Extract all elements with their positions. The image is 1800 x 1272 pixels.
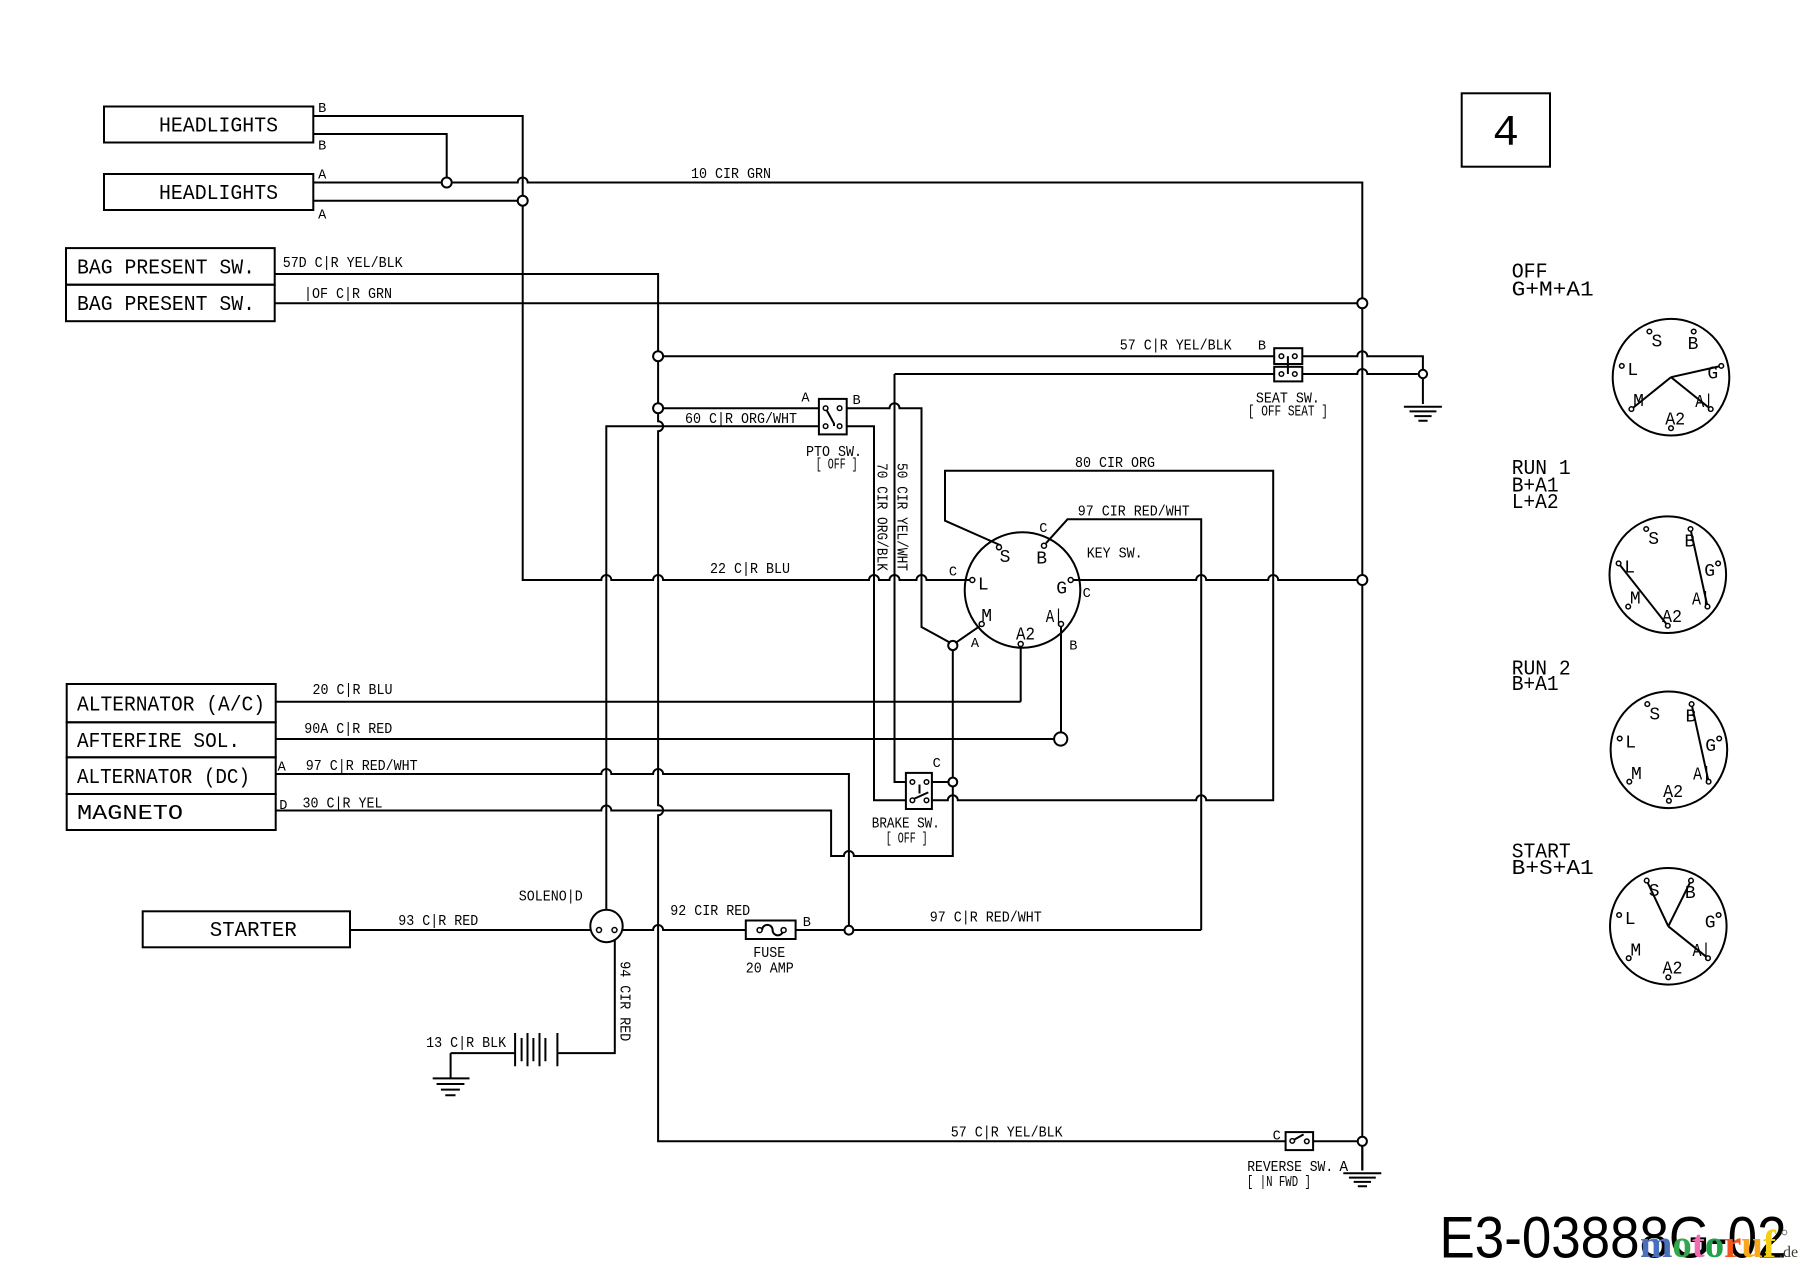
svg-text:REVERSE SW.: REVERSE SW. <box>1247 1160 1333 1176</box>
svg-text:A: A <box>801 392 810 407</box>
svg-text:SOLENO|D: SOLENO|D <box>519 890 583 906</box>
svg-text:B: B <box>1685 707 1696 727</box>
svg-text:A|: A| <box>1046 608 1063 628</box>
svg-text:G: G <box>1705 914 1716 934</box>
svg-text:A|: A| <box>1693 942 1711 962</box>
svg-text:B+S+A1: B+S+A1 <box>1512 858 1594 881</box>
svg-text:A|: A| <box>1692 590 1710 610</box>
svg-text:MAGNETO: MAGNETO <box>77 803 183 826</box>
svg-text:B: B <box>1258 340 1266 355</box>
svg-text:22 C|R BLU: 22 C|R BLU <box>710 562 790 578</box>
svg-text:G: G <box>1704 562 1715 582</box>
svg-text:L: L <box>978 576 989 596</box>
svg-text:L: L <box>1625 734 1636 754</box>
svg-text:L: L <box>1624 559 1635 579</box>
svg-text:97 C|R RED/WHT: 97 C|R RED/WHT <box>930 911 1042 927</box>
svg-text:L: L <box>1625 910 1636 930</box>
svg-text:M: M <box>1630 941 1641 961</box>
svg-text:A2: A2 <box>1663 960 1683 980</box>
svg-text:G: G <box>1707 365 1718 385</box>
svg-text:A2: A2 <box>1016 626 1035 646</box>
svg-text:A: A <box>318 209 327 224</box>
svg-text:BAG PRESENT SW.: BAG PRESENT SW. <box>77 294 255 317</box>
svg-text:B: B <box>803 916 811 931</box>
svg-text:M: M <box>1633 392 1644 412</box>
svg-text:20 AMP: 20 AMP <box>746 961 794 977</box>
svg-text:A: A <box>1339 1160 1348 1176</box>
svg-text:C: C <box>933 757 941 772</box>
svg-text:G: G <box>1705 737 1716 757</box>
svg-text:B: B <box>318 102 326 117</box>
svg-text:60 C|R ORG/WHT: 60 C|R ORG/WHT <box>685 412 797 428</box>
svg-text:AFTERFIRE SOL.: AFTERFIRE SOL. <box>77 731 240 754</box>
svg-text:93 C|R RED: 93 C|R RED <box>398 914 478 930</box>
svg-text:90A C|R RED: 90A C|R RED <box>304 722 392 738</box>
svg-text:M: M <box>981 607 992 627</box>
svg-text:30 C|R YEL: 30 C|R YEL <box>303 797 383 813</box>
svg-text:|OF C|R GRN: |OF C|R GRN <box>304 287 392 303</box>
svg-text:57 C|R YEL/BLK: 57 C|R YEL/BLK <box>1120 339 1232 355</box>
svg-text:97 C|R RED/WHT: 97 C|R RED/WHT <box>306 759 418 775</box>
svg-text:A: A <box>278 761 287 776</box>
svg-text:KEY SW.: KEY SW. <box>1087 547 1143 563</box>
svg-text:50 CIR YEL/WHT: 50 CIR YEL/WHT <box>893 463 909 571</box>
svg-text:A|: A| <box>1695 393 1713 413</box>
svg-text:BAG PRESENT SW.: BAG PRESENT SW. <box>77 258 255 281</box>
svg-text:S: S <box>1648 530 1659 550</box>
svg-text:57D C|R YEL/BLK: 57D C|R YEL/BLK <box>283 256 403 272</box>
svg-text:.de: .de <box>1779 1244 1798 1261</box>
svg-text:A: A <box>971 637 980 652</box>
svg-text:A2: A2 <box>1665 411 1685 431</box>
svg-text:C: C <box>1083 587 1091 602</box>
svg-text:20 C|R BLU: 20 C|R BLU <box>313 683 393 699</box>
svg-text:[ OFF ]: [ OFF ] <box>816 458 858 474</box>
svg-text:STARTER: STARTER <box>210 920 297 943</box>
svg-text:C: C <box>949 566 957 581</box>
svg-text:80 CIR ORG: 80 CIR ORG <box>1075 456 1155 472</box>
svg-text:A2: A2 <box>1662 608 1682 628</box>
svg-text:A|: A| <box>1693 766 1711 786</box>
svg-text:4: 4 <box>1493 109 1519 159</box>
svg-text:94 CIR RED: 94 CIR RED <box>616 961 632 1041</box>
svg-text:G: G <box>1056 580 1067 600</box>
svg-text:A2: A2 <box>1663 783 1683 803</box>
svg-text:10 CIR GRN: 10 CIR GRN <box>691 167 771 183</box>
svg-text:S: S <box>1651 333 1662 353</box>
svg-text:L+A2: L+A2 <box>1512 492 1559 515</box>
svg-text:[ OFF ]: [ OFF ] <box>886 832 928 848</box>
svg-text:D: D <box>279 799 287 814</box>
svg-text:13 C|R BLK: 13 C|R BLK <box>426 1036 506 1052</box>
svg-text:S: S <box>1649 705 1660 725</box>
svg-text:B: B <box>1069 640 1077 655</box>
svg-text:HEADLIGHTS: HEADLIGHTS <box>159 116 278 139</box>
svg-text:70 CIR ORG/BLK: 70 CIR ORG/BLK <box>873 463 889 571</box>
svg-text:B+A1: B+A1 <box>1512 674 1559 697</box>
svg-text:A: A <box>318 169 327 184</box>
svg-text:C: C <box>1273 1130 1281 1145</box>
svg-text:B: B <box>853 394 861 409</box>
svg-text:ALTERNATOR (A/C): ALTERNATOR (A/C) <box>77 694 265 717</box>
svg-text:L: L <box>1627 361 1638 381</box>
svg-text:FUSE: FUSE <box>753 946 785 962</box>
svg-text:[ OFF SEAT ]: [ OFF SEAT ] <box>1248 405 1328 421</box>
svg-text:HEADLIGHTS: HEADLIGHTS <box>159 183 278 206</box>
svg-text:B: B <box>318 140 326 155</box>
svg-text:92 CIR RED: 92 CIR RED <box>670 904 750 920</box>
svg-text:M: M <box>1631 765 1642 785</box>
svg-text:G+M+A1: G+M+A1 <box>1512 280 1594 303</box>
svg-text:[ |N FWD ]: [ |N FWD ] <box>1247 1175 1311 1191</box>
svg-text:ALTERNATOR (DC): ALTERNATOR (DC) <box>77 767 250 790</box>
svg-text:B: B <box>1685 884 1696 904</box>
svg-text:BRAKE SW.: BRAKE SW. <box>872 817 940 833</box>
svg-text:S: S <box>1000 548 1011 568</box>
svg-text:M: M <box>1630 590 1641 610</box>
svg-text:motoruf: motoruf <box>1640 1223 1777 1266</box>
svg-text:97 CIR RED/WHT: 97 CIR RED/WHT <box>1078 505 1190 521</box>
svg-text:B: B <box>1688 335 1699 355</box>
svg-text:57 C|R YEL/BLK: 57 C|R YEL/BLK <box>951 1126 1063 1142</box>
svg-text:B: B <box>1036 550 1047 570</box>
svg-text:S: S <box>1649 882 1660 902</box>
svg-text:B: B <box>1684 532 1695 552</box>
svg-text:C: C <box>1039 522 1047 537</box>
